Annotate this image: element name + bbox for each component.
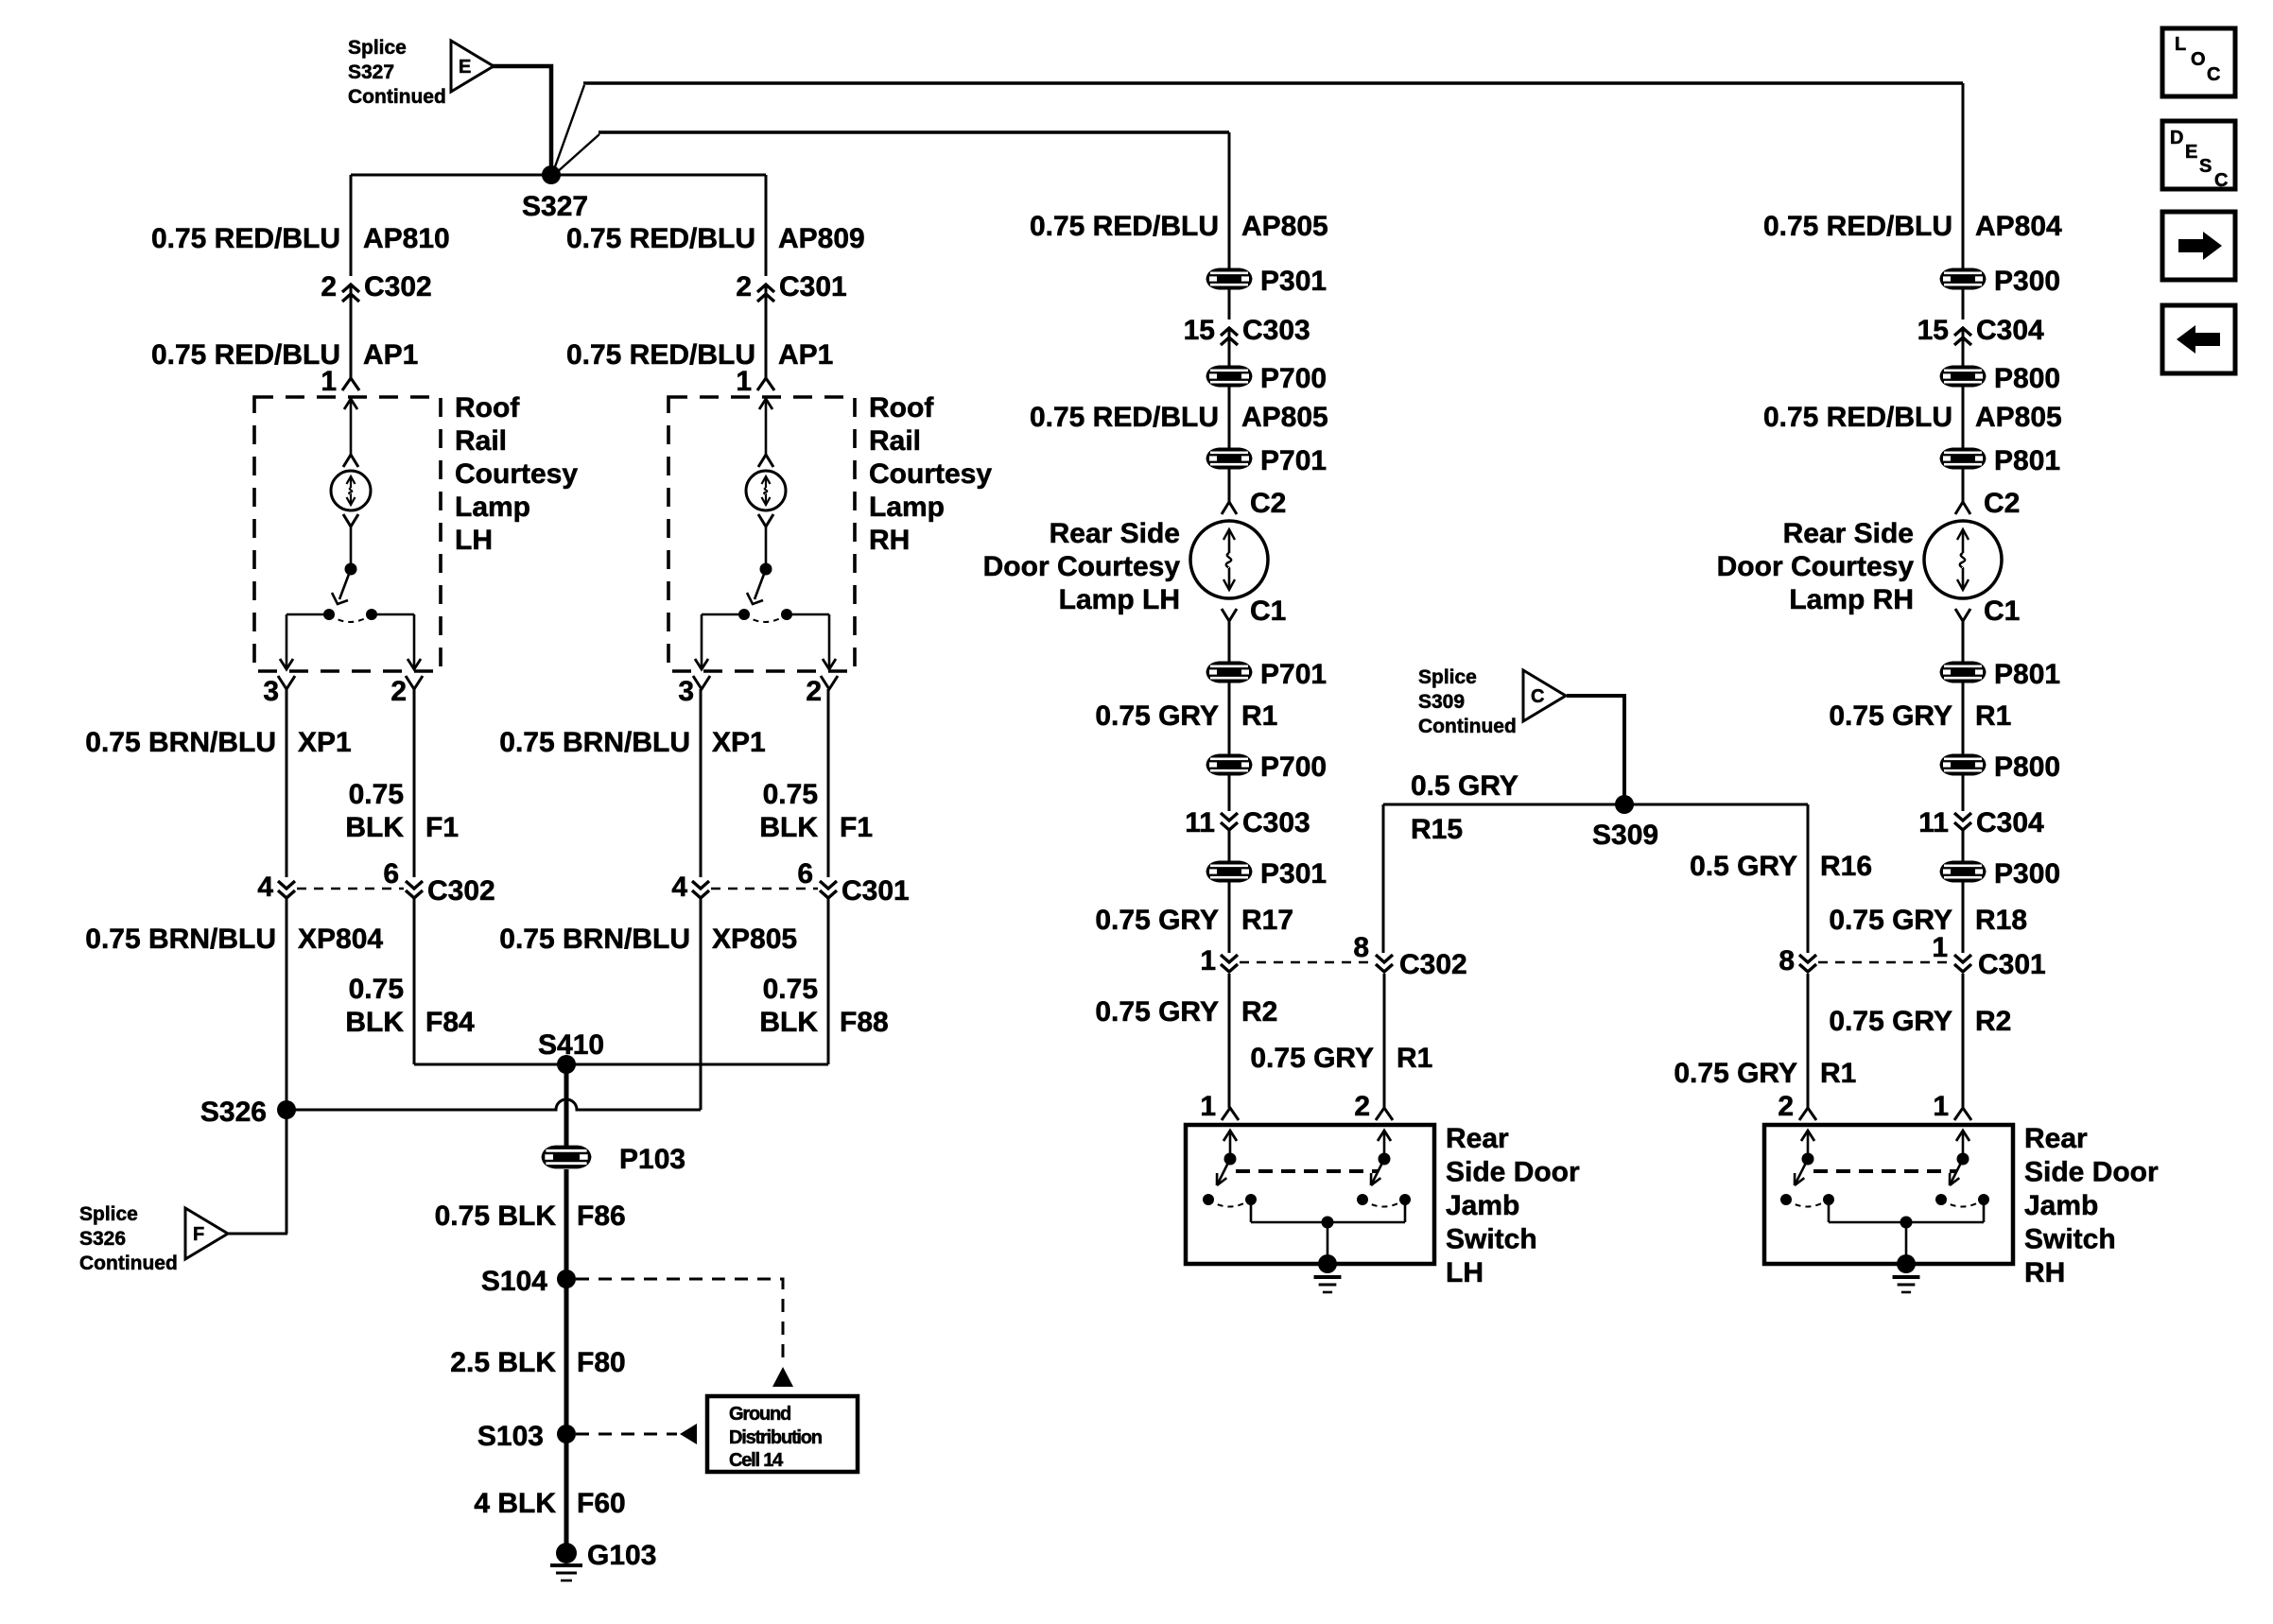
svg-text:0.75 GRY: 0.75 GRY (1674, 1058, 1797, 1089)
svg-text:4: 4 (257, 872, 273, 903)
svg-text:AP1: AP1 (778, 339, 833, 371)
svg-text:P800: P800 (1994, 363, 2060, 394)
svg-text:S327: S327 (522, 191, 588, 222)
svg-text:Continued: Continued (348, 86, 446, 108)
svg-text:R1: R1 (1241, 700, 1277, 732)
svg-text:P301: P301 (1260, 858, 1327, 890)
svg-text:Distribution: Distribution (729, 1427, 822, 1448)
svg-text:C304: C304 (1976, 807, 2044, 838)
svg-text:E: E (459, 57, 471, 78)
svg-text:C304: C304 (1976, 315, 2044, 346)
svg-text:1: 1 (1200, 1091, 1216, 1122)
svg-text:P103: P103 (619, 1144, 685, 1175)
svg-text:2: 2 (806, 676, 822, 707)
svg-text:0.5 GRY: 0.5 GRY (1411, 770, 1518, 802)
svg-text:BLK: BLK (759, 812, 818, 843)
svg-text:S327: S327 (348, 61, 394, 83)
svg-text:6: 6 (383, 858, 399, 890)
svg-text:C302: C302 (1399, 949, 1467, 980)
svg-text:F80: F80 (577, 1347, 626, 1378)
svg-text:Rail: Rail (455, 425, 507, 457)
svg-text:S326: S326 (200, 1097, 267, 1128)
svg-text:S309: S309 (1418, 691, 1465, 713)
svg-text:C2: C2 (1984, 488, 2020, 519)
svg-text:Cell 14: Cell 14 (729, 1450, 784, 1471)
svg-text:P701: P701 (1260, 445, 1327, 476)
svg-text:Rail: Rail (869, 425, 921, 457)
svg-text:0.75: 0.75 (763, 779, 818, 810)
svg-text:Rear Side: Rear Side (1050, 518, 1180, 549)
svg-text:R1: R1 (1397, 1043, 1432, 1074)
svg-text:LH: LH (455, 525, 493, 556)
svg-text:RH: RH (869, 525, 910, 556)
svg-text:Courtesy: Courtesy (455, 458, 578, 490)
svg-text:6: 6 (797, 858, 813, 890)
svg-text:P700: P700 (1260, 752, 1327, 783)
svg-text:C301: C301 (1978, 949, 2046, 980)
svg-text:C: C (1531, 686, 1544, 707)
svg-text:C302: C302 (364, 271, 432, 302)
svg-text:E: E (2185, 142, 2197, 163)
svg-text:0.75 RED/BLU: 0.75 RED/BLU (1030, 211, 1219, 242)
svg-text:Continued: Continued (79, 1253, 178, 1274)
svg-text:1: 1 (1932, 932, 1948, 963)
svg-text:LH: LH (1446, 1257, 1484, 1288)
svg-text:Lamp: Lamp (869, 492, 945, 523)
svg-text:2: 2 (390, 676, 407, 707)
svg-text:F86: F86 (577, 1201, 626, 1232)
svg-text:11: 11 (1918, 807, 1949, 838)
svg-text:C: C (2207, 64, 2220, 85)
svg-text:BLK: BLK (345, 1007, 404, 1038)
svg-text:Roof: Roof (455, 392, 520, 423)
svg-text:4: 4 (671, 872, 687, 903)
svg-text:F60: F60 (577, 1488, 626, 1519)
svg-text:0.75 BLK: 0.75 BLK (435, 1201, 557, 1232)
svg-text:XP1: XP1 (298, 727, 352, 758)
svg-text:XP805: XP805 (712, 924, 797, 955)
svg-text:P801: P801 (1994, 659, 2060, 690)
svg-text:Jamb: Jamb (2024, 1190, 2098, 1221)
svg-text:2.5 BLK: 2.5 BLK (450, 1347, 556, 1378)
svg-text:S410: S410 (538, 1029, 604, 1061)
svg-text:P300: P300 (1994, 266, 2060, 297)
svg-text:0.75: 0.75 (349, 974, 404, 1005)
svg-text:AP805: AP805 (1241, 402, 1328, 433)
svg-text:Rear Side: Rear Side (1783, 518, 1914, 549)
svg-text:0.75 RED/BLU: 0.75 RED/BLU (151, 223, 340, 254)
svg-text:0.75 RED/BLU: 0.75 RED/BLU (566, 223, 755, 254)
svg-text:AP809: AP809 (778, 223, 865, 254)
svg-text:F84: F84 (425, 1007, 475, 1038)
svg-text:0.75 RED/BLU: 0.75 RED/BLU (151, 339, 340, 371)
svg-text:R15: R15 (1411, 814, 1463, 845)
svg-text:C1: C1 (1250, 596, 1286, 627)
svg-text:Side Door: Side Door (2024, 1157, 2159, 1188)
svg-text:S103: S103 (477, 1421, 544, 1452)
svg-text:AP804: AP804 (1975, 211, 2062, 242)
svg-text:R16: R16 (1820, 851, 1872, 882)
svg-text:Switch: Switch (2024, 1224, 2116, 1255)
svg-text:Rear: Rear (1446, 1123, 1509, 1154)
svg-text:Lamp: Lamp (455, 492, 530, 523)
svg-text:Switch: Switch (1446, 1224, 1537, 1255)
svg-text:G103: G103 (587, 1540, 656, 1571)
svg-text:O: O (2191, 49, 2206, 70)
svg-text:R2: R2 (1975, 1006, 2011, 1037)
svg-text:R17: R17 (1241, 905, 1293, 936)
svg-text:S326: S326 (79, 1228, 126, 1250)
svg-text:XP1: XP1 (712, 727, 766, 758)
svg-text:0.75 BRN/BLU: 0.75 BRN/BLU (499, 924, 690, 955)
svg-text:AP805: AP805 (1241, 211, 1328, 242)
svg-text:Rear: Rear (2024, 1123, 2088, 1154)
svg-text:0.75 BRN/BLU: 0.75 BRN/BLU (85, 924, 276, 955)
svg-text:Door Courtesy: Door Courtesy (1717, 551, 1915, 582)
svg-text:Roof: Roof (869, 392, 934, 423)
svg-text:AP810: AP810 (363, 223, 450, 254)
svg-text:S309: S309 (1592, 820, 1658, 851)
svg-text:P800: P800 (1994, 752, 2060, 783)
svg-text:0.75 GRY: 0.75 GRY (1095, 700, 1219, 732)
svg-text:8: 8 (1778, 945, 1795, 976)
svg-text:Splice: Splice (1418, 666, 1477, 688)
svg-text:0.75: 0.75 (763, 974, 818, 1005)
svg-text:15: 15 (1184, 315, 1215, 346)
svg-text:C: C (2214, 170, 2228, 191)
svg-text:C303: C303 (1242, 807, 1310, 838)
svg-text:P300: P300 (1994, 858, 2060, 890)
svg-text:BLK: BLK (759, 1007, 818, 1038)
svg-text:0.5 GRY: 0.5 GRY (1690, 851, 1797, 882)
svg-text:Lamp LH: Lamp LH (1059, 584, 1180, 615)
svg-text:0.75 BRN/BLU: 0.75 BRN/BLU (85, 727, 276, 758)
svg-text:F1: F1 (840, 812, 873, 843)
svg-text:0.75 RED/BLU: 0.75 RED/BLU (1763, 211, 1952, 242)
svg-text:11: 11 (1185, 807, 1215, 838)
svg-text:2: 2 (1354, 1091, 1370, 1122)
svg-text:0.75 GRY: 0.75 GRY (1250, 1043, 1374, 1074)
svg-text:D: D (2170, 128, 2183, 148)
svg-text:P701: P701 (1260, 659, 1327, 690)
svg-text:C1: C1 (1984, 596, 2020, 627)
svg-text:Jamb: Jamb (1446, 1190, 1519, 1221)
svg-text:0.75 GRY: 0.75 GRY (1095, 996, 1219, 1028)
svg-text:C302: C302 (427, 875, 495, 907)
svg-text:0.75 RED/BLU: 0.75 RED/BLU (1030, 402, 1219, 433)
svg-text:4 BLK: 4 BLK (474, 1488, 556, 1519)
svg-text:3: 3 (678, 676, 694, 707)
svg-text:0.75: 0.75 (349, 779, 404, 810)
svg-text:1: 1 (736, 366, 752, 397)
svg-text:C301: C301 (842, 875, 910, 907)
svg-text:BLK: BLK (345, 812, 404, 843)
svg-text:Door Courtesy: Door Courtesy (983, 551, 1181, 582)
svg-text:R1: R1 (1820, 1058, 1856, 1089)
svg-text:0.75 RED/BLU: 0.75 RED/BLU (1763, 402, 1952, 433)
svg-text:F88: F88 (840, 1007, 889, 1038)
svg-text:0.75 BRN/BLU: 0.75 BRN/BLU (499, 727, 690, 758)
svg-text:L: L (2175, 34, 2186, 55)
svg-text:0.75 GRY: 0.75 GRY (1829, 700, 1952, 732)
svg-text:Splice: Splice (348, 37, 407, 59)
svg-text:AP805: AP805 (1975, 402, 2062, 433)
svg-text:1: 1 (1200, 945, 1216, 976)
svg-text:R1: R1 (1975, 700, 2011, 732)
svg-text:XP804: XP804 (298, 924, 383, 955)
svg-text:1: 1 (321, 366, 337, 397)
svg-text:C2: C2 (1250, 488, 1286, 519)
svg-text:Side Door: Side Door (1446, 1157, 1580, 1188)
svg-text:R2: R2 (1241, 996, 1277, 1028)
svg-text:R18: R18 (1975, 905, 2027, 936)
svg-text:S: S (2199, 156, 2212, 177)
svg-text:C301: C301 (779, 271, 847, 302)
svg-text:Splice: Splice (79, 1203, 138, 1225)
svg-text:AP1: AP1 (363, 339, 418, 371)
svg-text:3: 3 (263, 676, 279, 707)
svg-text:C303: C303 (1242, 315, 1310, 346)
svg-text:8: 8 (1353, 932, 1369, 963)
svg-text:0.75 RED/BLU: 0.75 RED/BLU (566, 339, 755, 371)
svg-text:Courtesy: Courtesy (869, 458, 992, 490)
svg-text:Ground: Ground (729, 1404, 790, 1425)
svg-text:S104: S104 (481, 1266, 547, 1297)
svg-text:2: 2 (736, 271, 752, 302)
svg-text:P801: P801 (1994, 445, 2060, 476)
svg-text:2: 2 (321, 271, 337, 302)
svg-text:1: 1 (1933, 1091, 1949, 1122)
svg-text:15: 15 (1917, 315, 1949, 346)
svg-text:RH: RH (2024, 1257, 2065, 1288)
svg-text:2: 2 (1778, 1091, 1794, 1122)
svg-text:Lamp RH: Lamp RH (1789, 584, 1914, 615)
svg-text:P700: P700 (1260, 363, 1327, 394)
svg-text:0.75 GRY: 0.75 GRY (1095, 905, 1219, 936)
svg-text:F1: F1 (425, 812, 459, 843)
svg-text:0.75 GRY: 0.75 GRY (1829, 1006, 1952, 1037)
svg-text:P301: P301 (1260, 266, 1327, 297)
svg-text:Continued: Continued (1418, 716, 1517, 737)
svg-text:F: F (193, 1224, 204, 1245)
